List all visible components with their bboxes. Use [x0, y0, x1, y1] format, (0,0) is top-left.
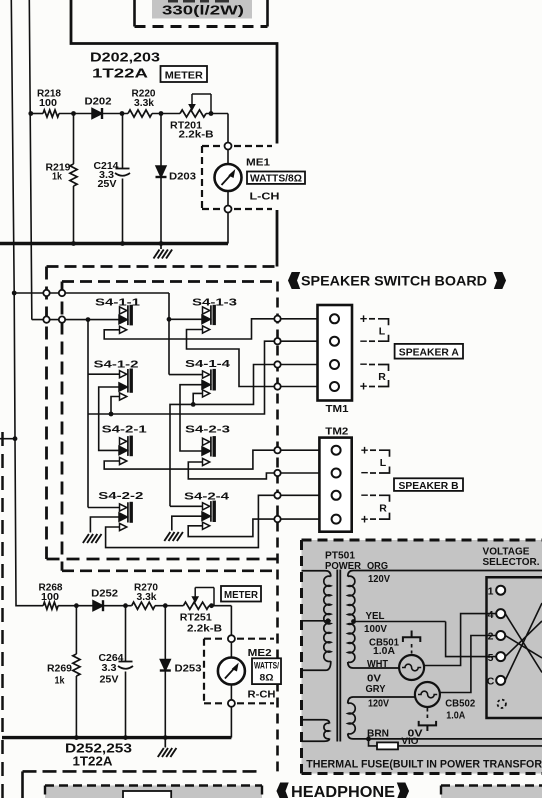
svg-text:TM2: TM2 — [325, 426, 348, 438]
svg-text:5: 5 — [488, 652, 494, 664]
svg-text:GRY: GRY — [366, 684, 386, 695]
svg-text:YEL: YEL — [366, 611, 385, 622]
svg-text:25V: 25V — [100, 675, 120, 686]
svg-text:R269: R269 — [47, 664, 73, 675]
svg-text:R: R — [378, 371, 386, 383]
svg-text:ME2: ME2 — [248, 647, 272, 659]
svg-text:3.3k: 3.3k — [134, 98, 155, 109]
svg-text:WATTS/: WATTS/ — [254, 660, 279, 670]
svg-text:+: + — [360, 379, 368, 394]
svg-text:S4-1-1: S4-1-1 — [95, 298, 140, 309]
svg-text:SPEAKER A: SPEAKER A — [399, 346, 459, 358]
svg-text:HEADPHONE: HEADPHONE — [291, 784, 395, 798]
svg-text:S4-2-4: S4-2-4 — [184, 492, 229, 503]
svg-text:3.3: 3.3 — [102, 663, 118, 674]
svg-text:S4-1-4: S4-1-4 — [185, 359, 230, 370]
svg-text:C: C — [487, 676, 495, 688]
svg-text:ME1: ME1 — [246, 157, 270, 169]
svg-text:ORG: ORG — [367, 561, 388, 572]
svg-text:S4-1-2: S4-1-2 — [94, 360, 139, 371]
svg-text:120V: 120V — [368, 574, 390, 585]
svg-text:+: + — [361, 511, 369, 526]
svg-text:CB502: CB502 — [445, 698, 475, 709]
svg-text:8Ω: 8Ω — [260, 672, 274, 682]
svg-text:+: + — [360, 311, 368, 326]
svg-text:METER: METER — [224, 590, 259, 601]
svg-text:3.3k: 3.3k — [137, 592, 158, 603]
svg-text:100V: 100V — [364, 624, 387, 635]
svg-text:+: + — [361, 442, 369, 457]
svg-text:S4-2-1: S4-2-1 — [102, 425, 147, 436]
svg-text:100: 100 — [41, 592, 60, 603]
svg-text:D253: D253 — [175, 664, 203, 675]
svg-text:POWER: POWER — [325, 561, 362, 572]
svg-text:L: L — [379, 326, 386, 338]
svg-text:−: − — [360, 333, 368, 348]
svg-text:100: 100 — [39, 98, 58, 109]
svg-text:2.2k-B: 2.2k-B — [187, 624, 222, 635]
svg-text:4: 4 — [488, 609, 494, 621]
svg-text:BRN: BRN — [367, 728, 389, 739]
svg-text:R-CH: R-CH — [248, 689, 276, 701]
svg-text:S4-2-3: S4-2-3 — [185, 425, 230, 436]
svg-text:D202: D202 — [85, 97, 113, 108]
svg-text:1T22A: 1T22A — [92, 66, 149, 81]
svg-text:S4-1-3: S4-1-3 — [192, 298, 237, 309]
svg-text:R: R — [379, 503, 387, 515]
svg-text:1.0A: 1.0A — [446, 710, 465, 721]
svg-text:WHT: WHT — [367, 659, 388, 670]
svg-text:0V: 0V — [367, 673, 381, 684]
svg-text:METER: METER — [165, 70, 203, 82]
svg-text:SPEAKER SWITCH BOARD: SPEAKER SWITCH BOARD — [301, 274, 487, 289]
svg-text:D252: D252 — [91, 589, 119, 600]
svg-text:−: − — [361, 488, 369, 503]
svg-text:1T22A: 1T22A — [73, 755, 113, 769]
svg-text:1: 1 — [488, 585, 494, 597]
svg-text:RT251: RT251 — [180, 613, 212, 624]
svg-text:S4-2-2: S4-2-2 — [98, 491, 143, 502]
svg-text:330(l/2W): 330(l/2W) — [162, 4, 244, 18]
svg-text:1.0A: 1.0A — [373, 646, 395, 657]
svg-text:2.2k-B: 2.2k-B — [179, 130, 214, 141]
svg-text:D252,253: D252,253 — [65, 742, 132, 756]
svg-text:THERMAL FUSE(BUILT IN POWER TR: THERMAL FUSE(BUILT IN POWER TRANSFOR — [306, 759, 542, 771]
svg-text:L: L — [380, 457, 387, 469]
svg-text:1k: 1k — [55, 676, 65, 687]
svg-text:1k: 1k — [52, 172, 62, 183]
svg-text:−: − — [360, 357, 368, 372]
svg-text:D203: D203 — [169, 172, 197, 183]
svg-text:25V: 25V — [98, 179, 118, 190]
svg-text:WATTS/8Ω: WATTS/8Ω — [250, 173, 302, 184]
svg-text:L-CH: L-CH — [250, 191, 280, 203]
svg-text:TM1: TM1 — [326, 403, 349, 415]
svg-text:SPEAKER B: SPEAKER B — [399, 480, 459, 492]
svg-text:120V: 120V — [368, 699, 389, 710]
svg-text:VIO: VIO — [401, 736, 418, 747]
svg-text:2: 2 — [488, 631, 494, 643]
svg-text:SELECTOR.: SELECTOR. — [483, 556, 540, 568]
svg-text:−: − — [361, 465, 369, 480]
svg-text:D202,203: D202,203 — [90, 50, 160, 65]
